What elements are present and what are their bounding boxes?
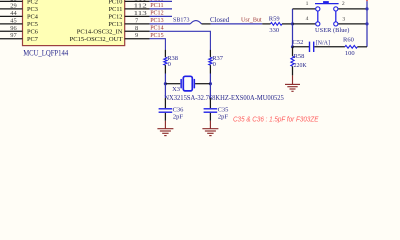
wire C52 to R60 — [314, 46, 345, 48]
svg-text:USER (Blue): USER (Blue) — [315, 27, 349, 34]
svg-text:PC4: PC4 — [27, 14, 39, 21]
junction at C52 / R58 — [291, 45, 294, 48]
svg-text:NX3215SA-32.768KHZ-EXS00A-MU00: NX3215SA-32.768KHZ-EXS00A-MU00525 — [164, 95, 284, 102]
svg-text:PC14-OSC32_IN: PC14-OSC32_IN — [77, 28, 123, 35]
button actuator knob — [323, 1, 329, 4]
crystal X3 left lead — [165, 83, 180, 85]
capacitor C36 top lead — [164, 98, 166, 108]
wire net PC12 — [150, 15, 172, 17]
capacitor C52 plates — [309, 42, 310, 52]
svg-text:PC11: PC11 — [150, 2, 163, 9]
resistor R37 top lead — [209, 50, 211, 57]
pin 111 (PC10) lead, right — [125, 0, 150, 2]
button right contact bar — [335, 11, 337, 22]
button actuator bar — [315, 3, 339, 5]
ground stem below R58 — [292, 75, 294, 84]
wire net PC10 — [150, 0, 172, 2]
button contact circle pin 3 — [334, 22, 338, 26]
resistor R38 body — [164, 57, 167, 65]
resistor R58 bottom lead — [292, 66, 294, 75]
wire net PC11 — [150, 8, 172, 10]
svg-text:PC14: PC14 — [150, 25, 164, 32]
svg-text:100: 100 — [345, 50, 355, 57]
wire R38 to crystal node — [164, 74, 166, 84]
SB173 right lead — [202, 23, 211, 25]
resistor R58 top lead — [292, 47, 294, 56]
button contact circle pin 1 — [316, 7, 320, 11]
button left contact bar — [317, 11, 319, 22]
wire net Usr_But — [211, 23, 263, 25]
svg-text:PC12: PC12 — [150, 10, 163, 17]
svg-text:PC2: PC2 — [27, 0, 38, 6]
VDD rail wire — [366, 1, 368, 47]
crystal X3 body — [183, 76, 192, 91]
svg-text:PC5: PC5 — [27, 21, 38, 28]
ground below C35 — [202, 128, 218, 130]
svg-text:2pF: 2pF — [218, 113, 229, 120]
svg-text:9: 9 — [135, 32, 138, 39]
svg-text:C52: C52 — [293, 39, 304, 46]
crystal X3 left plate — [180, 79, 182, 89]
svg-text:PC7: PC7 — [27, 36, 38, 43]
wire PC14 to R37 column — [150, 31, 211, 50]
svg-text:2: 2 — [342, 1, 345, 7]
svg-text:3: 3 — [342, 16, 345, 22]
ground below R58 — [285, 83, 300, 85]
svg-text:0: 0 — [213, 61, 216, 68]
capacitor C36 bottom lead — [164, 113, 166, 121]
junction crystal left node — [164, 82, 167, 85]
svg-text:44: 44 — [10, 10, 17, 17]
svg-text:4: 4 — [306, 16, 309, 22]
ground stem below C36 — [164, 121, 166, 129]
pin 29 (PC3) lead, left — [0, 8, 23, 10]
crystal X3 right lead — [195, 83, 210, 85]
svg-text:PC15-OSC32_OUT: PC15-OSC32_OUT — [70, 36, 123, 43]
button pin 4 lead — [293, 23, 316, 25]
junction crystal right node — [209, 82, 212, 85]
svg-text:C35 & C36 : 1.5pF for F303ZE: C35 & C36 : 1.5pF for F303ZE — [233, 117, 319, 124]
svg-text:R60: R60 — [343, 37, 354, 44]
wire PC15 to R38 column — [150, 39, 166, 50]
pin 44 (PC4) lead, left — [0, 15, 23, 17]
pin 28 (PC2) lead, left — [0, 0, 23, 2]
svg-text:MCU_LQFP144: MCU_LQFP144 — [23, 48, 68, 57]
svg-text:29: 29 — [10, 2, 16, 9]
resistor R38 top lead — [164, 50, 166, 57]
button contact circle pin 4 — [316, 22, 320, 26]
svg-text:PC10: PC10 — [108, 0, 122, 6]
capacitor C36 plates — [159, 108, 173, 109]
svg-text:97: 97 — [10, 32, 17, 39]
ground stem below C35 — [209, 121, 211, 129]
svg-text:PC3: PC3 — [27, 6, 38, 13]
wire R37 to crystal node — [209, 74, 211, 84]
wire crystal node down to C36 — [164, 84, 166, 98]
pin 45 (PC5) lead, left — [0, 23, 23, 25]
pin 112 (PC11) lead, right — [125, 8, 150, 10]
solder bridge SB173 arc — [190, 21, 201, 24]
svg-text:X3: X3 — [172, 86, 180, 93]
svg-text:113: 113 — [134, 10, 147, 17]
MCU U1 body (LQFP144), top cut off — [23, 0, 125, 46]
junction rail / pin 3 — [365, 22, 368, 25]
pin 8 (PC14-OSC32_IN) lead, right — [125, 30, 150, 32]
svg-text:0: 0 — [168, 61, 171, 68]
pin 96 (PC6) lead, left — [0, 30, 23, 32]
wire crystal node down to C35 — [209, 84, 211, 98]
button pin 1 lead — [293, 8, 316, 10]
wire node column left of button — [292, 9, 294, 47]
junction rail / pin 2 — [365, 7, 368, 10]
button pin 2 lead — [338, 8, 367, 10]
capacitor C35 plates — [204, 108, 218, 109]
svg-text:Usr_But: Usr_But — [241, 17, 262, 24]
resistor R58 body — [291, 56, 294, 66]
wire junction to C52 — [293, 46, 310, 48]
resistor R60 body — [345, 45, 358, 48]
pin 113 (PC12) lead, right — [125, 15, 150, 17]
svg-text:PC15: PC15 — [150, 32, 164, 39]
svg-text:Closed: Closed — [210, 17, 230, 24]
svg-text:8: 8 — [135, 25, 138, 32]
svg-text:SB173: SB173 — [173, 17, 190, 24]
button pin 3 lead — [338, 23, 367, 25]
svg-text:[N/A]: [N/A] — [316, 39, 330, 46]
wire PC13 to SB173 — [150, 23, 191, 25]
resistor R38 bottom lead — [164, 65, 166, 73]
svg-text:96: 96 — [10, 25, 16, 32]
power stub (VDD, cut off) — [366, 0, 368, 1]
pin 9 (PC15-OSC32_OUT) lead, right — [125, 38, 150, 40]
resistor R37 body — [209, 57, 212, 65]
resistor R37 bottom lead — [209, 65, 211, 73]
svg-text:220K: 220K — [294, 62, 307, 69]
svg-text:R58: R58 — [294, 53, 305, 60]
ground below C36 — [157, 128, 173, 130]
svg-text:PC11: PC11 — [109, 6, 123, 13]
resistor R59 body — [271, 23, 283, 26]
button contact circle pin 2 — [334, 7, 338, 11]
pin 7 (PC13) lead, right — [125, 23, 150, 25]
resistor R59 right lead — [282, 23, 293, 25]
capacitor C35 bottom lead — [209, 113, 211, 121]
resistor R59 left lead — [262, 23, 270, 25]
svg-text:PC13: PC13 — [150, 17, 164, 24]
crystal X3 right plate — [194, 79, 196, 89]
svg-text:R59: R59 — [269, 16, 280, 23]
junction at R59 / button pin 4 — [291, 22, 294, 25]
capacitor C35 top lead — [209, 98, 211, 108]
pin 97 (PC7) lead, left — [0, 38, 23, 40]
svg-text:330: 330 — [269, 27, 279, 34]
svg-text:PC6: PC6 — [27, 28, 38, 35]
svg-text:45: 45 — [10, 17, 16, 24]
resistor R60 right lead — [357, 46, 367, 48]
svg-text:PC12: PC12 — [108, 14, 122, 21]
svg-text:PC13: PC13 — [108, 21, 122, 28]
svg-text:1: 1 — [306, 1, 309, 7]
svg-text:112: 112 — [134, 2, 147, 9]
svg-text:2pF: 2pF — [173, 113, 184, 120]
